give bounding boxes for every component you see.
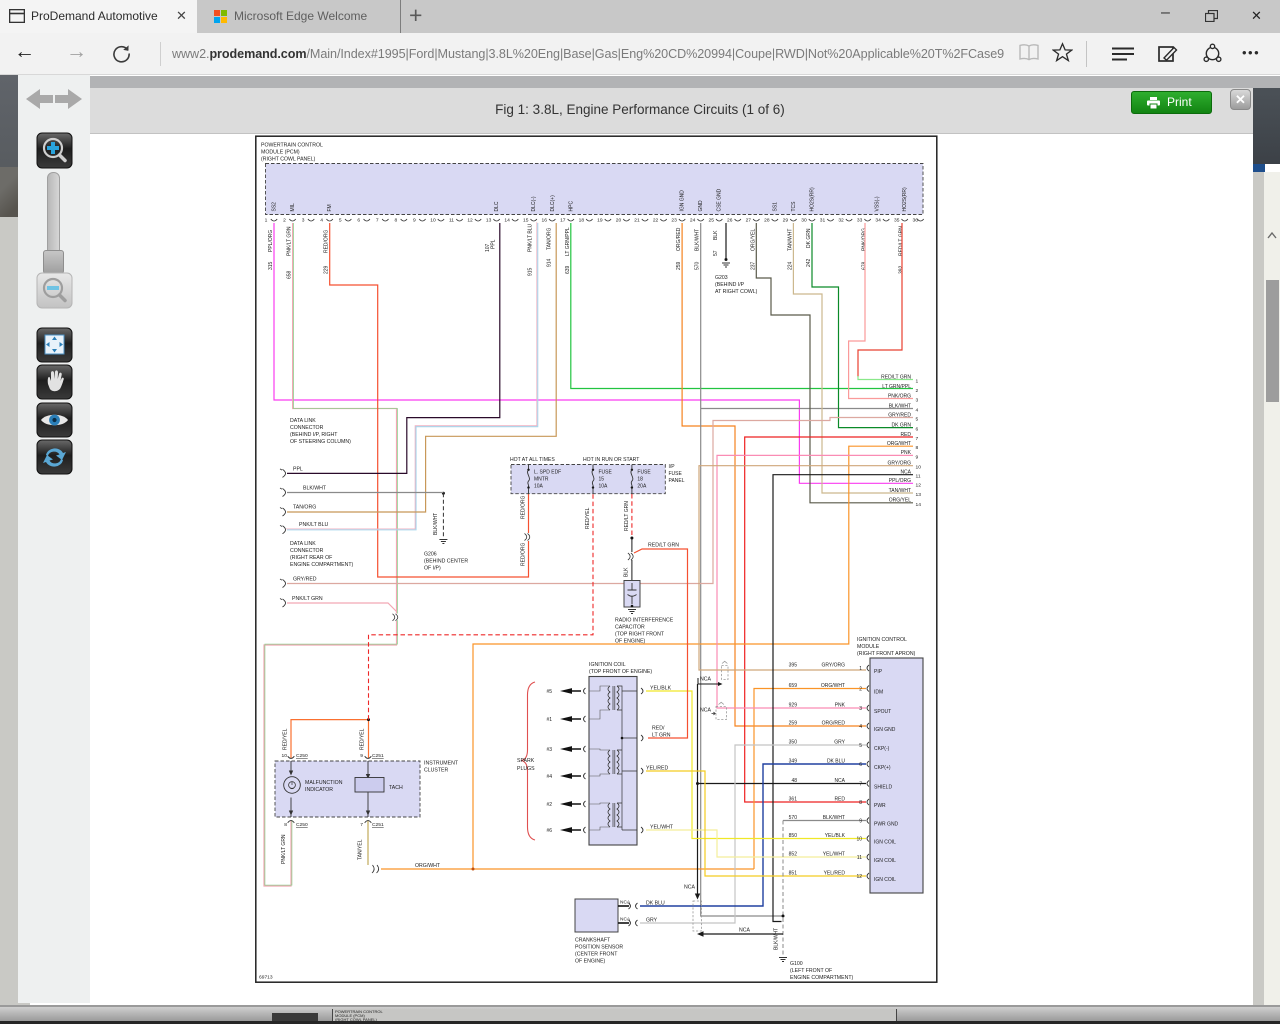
- svg-text:8: 8: [916, 445, 919, 451]
- svg-text:BLK: BLK: [624, 567, 630, 577]
- svg-text:INSTRUMENT: INSTRUMENT: [424, 761, 459, 767]
- svg-text:ORG/RED: ORG/RED: [822, 721, 846, 727]
- svg-text:349: 349: [789, 759, 798, 765]
- svg-text:YEL/WHT: YEL/WHT: [823, 852, 845, 858]
- svg-text:IGN GND: IGN GND: [874, 727, 896, 733]
- svg-text:FM: FM: [327, 204, 333, 211]
- svg-text:LT GRN/PPL: LT GRN/PPL: [565, 227, 571, 256]
- svg-text:259: 259: [676, 261, 682, 270]
- svg-text:TAN/ORG: TAN/ORG: [546, 227, 552, 250]
- svg-text:10: 10: [916, 465, 922, 471]
- svg-text:NCA: NCA: [834, 778, 845, 784]
- svg-text:VSS(-): VSS(-): [875, 196, 881, 211]
- svg-text:#1: #1: [546, 717, 552, 723]
- svg-text:YEL/RED: YEL/RED: [824, 871, 846, 877]
- svg-text:RED/LT GRN: RED/LT GRN: [624, 501, 630, 531]
- svg-text:SPOUT: SPOUT: [874, 709, 891, 715]
- svg-text:DATA LINK: DATA LINK: [290, 418, 316, 424]
- svg-text:RED/: RED/: [652, 726, 665, 732]
- svg-text:C251: C251: [372, 822, 384, 828]
- svg-text:27: 27: [746, 218, 752, 224]
- svg-text:RADIO INTERFERENCE: RADIO INTERFERENCE: [615, 618, 674, 624]
- svg-text:GRY/RED: GRY/RED: [293, 577, 317, 583]
- svg-text:#5: #5: [546, 689, 552, 695]
- svg-text:(TOP RIGHT FRONT: (TOP RIGHT FRONT: [615, 632, 665, 638]
- svg-text:DATA LINK: DATA LINK: [290, 541, 316, 547]
- svg-text:RED/YEL: RED/YEL: [283, 728, 289, 750]
- svg-text:31: 31: [820, 218, 826, 224]
- svg-text:GRY/ORG: GRY/ORG: [821, 663, 845, 669]
- svg-text:PANEL: PANEL: [669, 478, 685, 484]
- svg-text:G206: G206: [424, 552, 437, 558]
- svg-text:15: 15: [523, 218, 529, 224]
- svg-text:11: 11: [857, 855, 862, 861]
- svg-text:IGNITION CONTROL: IGNITION CONTROL: [857, 637, 907, 643]
- svg-text:14: 14: [916, 502, 922, 508]
- svg-text:CRANKSHAFT: CRANKSHAFT: [575, 938, 611, 944]
- svg-text:MIL: MIL: [290, 203, 296, 212]
- svg-text:YEL/RED: YEL/RED: [646, 766, 668, 772]
- svg-text:5: 5: [339, 218, 342, 224]
- svg-text:395: 395: [789, 663, 798, 669]
- svg-text:22: 22: [653, 218, 659, 224]
- svg-text:8: 8: [859, 800, 862, 806]
- svg-text:7: 7: [376, 218, 379, 224]
- svg-text:30: 30: [801, 218, 807, 224]
- svg-text:IGNITION COIL: IGNITION COIL: [589, 662, 626, 668]
- svg-text:POSITION SENSOR: POSITION SENSOR: [575, 945, 623, 951]
- svg-text:#6: #6: [546, 828, 552, 834]
- svg-text:229: 229: [324, 265, 330, 274]
- svg-text:SHIELD: SHIELD: [874, 784, 892, 790]
- svg-text:RED/ORG: RED/ORG: [521, 543, 527, 566]
- svg-text:BLK: BLK: [713, 230, 719, 240]
- svg-text:658: 658: [287, 270, 293, 279]
- svg-text:BLK/WHT: BLK/WHT: [823, 815, 845, 821]
- svg-text:RED/LT GRN: RED/LT GRN: [648, 543, 679, 549]
- svg-text:32: 32: [838, 218, 844, 224]
- svg-text:PNK/LT GRN: PNK/LT GRN: [287, 226, 293, 256]
- svg-text:C250: C250: [296, 822, 308, 828]
- svg-text:CONNECTOR: CONNECTOR: [290, 548, 324, 554]
- svg-text:IGN COIL: IGN COIL: [874, 877, 896, 883]
- svg-text:361: 361: [789, 797, 798, 803]
- svg-text:11: 11: [449, 218, 454, 224]
- svg-text:5: 5: [859, 743, 862, 749]
- svg-text:TAN/WHT: TAN/WHT: [889, 488, 911, 494]
- svg-text:24: 24: [690, 218, 696, 224]
- svg-text:16: 16: [542, 218, 548, 224]
- svg-text:PPL/ORG: PPL/ORG: [268, 230, 274, 252]
- svg-text:TAN/YEL: TAN/YEL: [358, 839, 364, 860]
- svg-text:SS1: SS1: [772, 202, 778, 212]
- svg-text:NCA: NCA: [700, 708, 711, 714]
- svg-text:PPL: PPL: [491, 239, 497, 249]
- svg-text:#3: #3: [546, 747, 552, 753]
- svg-text:DLC(+): DLC(+): [550, 195, 556, 212]
- svg-text:7: 7: [360, 822, 363, 828]
- svg-text:13: 13: [486, 218, 492, 224]
- svg-text:PNK/LT BLU: PNK/LT BLU: [528, 223, 534, 252]
- svg-text:21: 21: [634, 218, 640, 224]
- svg-text:(RIGHT REAR OF: (RIGHT REAR OF: [290, 555, 332, 561]
- svg-text:14: 14: [504, 218, 510, 224]
- svg-text:PLUGS: PLUGS: [517, 766, 535, 772]
- svg-text:#2: #2: [546, 802, 552, 808]
- svg-text:OF I/P): OF I/P): [424, 566, 441, 572]
- svg-text:DLC(-): DLC(-): [531, 196, 537, 211]
- svg-text:69713: 69713: [259, 975, 273, 981]
- svg-text:6: 6: [916, 427, 919, 433]
- svg-text:34: 34: [875, 218, 881, 224]
- svg-text:PNK/LT BLU: PNK/LT BLU: [299, 522, 328, 528]
- svg-text:(BEHIND I/P: (BEHIND I/P: [715, 282, 745, 288]
- svg-text:3: 3: [859, 706, 862, 712]
- svg-text:INDICATOR: INDICATOR: [305, 787, 333, 793]
- svg-text:PNK/ORG: PNK/ORG: [888, 393, 911, 399]
- svg-text:TAN/ORG: TAN/ORG: [293, 505, 316, 511]
- svg-text:PPL/ORG: PPL/ORG: [889, 478, 911, 484]
- svg-text:BLK/WHT: BLK/WHT: [303, 485, 327, 491]
- svg-text:C250: C250: [296, 753, 308, 759]
- svg-text:MNTR: MNTR: [534, 477, 549, 483]
- svg-text:MALFUNCTION: MALFUNCTION: [305, 780, 343, 786]
- svg-text:PIP: PIP: [874, 669, 883, 675]
- svg-text:RED/YEL: RED/YEL: [360, 728, 366, 750]
- svg-text:CONNECTOR: CONNECTOR: [290, 425, 324, 431]
- svg-text:2: 2: [916, 388, 919, 394]
- svg-text:107: 107: [485, 243, 491, 252]
- svg-text:SPARK: SPARK: [517, 758, 535, 764]
- svg-text:26: 26: [727, 218, 733, 224]
- svg-text:PPL: PPL: [293, 467, 303, 473]
- svg-text:6: 6: [859, 762, 862, 768]
- svg-text:PNK/LT GRN: PNK/LT GRN: [292, 596, 323, 602]
- svg-text:10A: 10A: [599, 484, 609, 490]
- svg-text:RED: RED: [900, 432, 911, 438]
- svg-text:ORG/WHT: ORG/WHT: [415, 863, 441, 869]
- svg-text:ORG/WHT: ORG/WHT: [821, 683, 845, 689]
- svg-text:ENGINE COMPARTMENT): ENGINE COMPARTMENT): [290, 562, 353, 568]
- svg-text:15: 15: [599, 477, 605, 483]
- svg-text:CLUSTER: CLUSTER: [424, 768, 448, 774]
- svg-text:RED/ORG: RED/ORG: [521, 496, 527, 519]
- svg-text:224: 224: [787, 261, 793, 270]
- svg-text:12: 12: [856, 874, 862, 880]
- svg-text:NCA: NCA: [620, 900, 631, 906]
- svg-text:POWERTRAIN CONTROL: POWERTRAIN CONTROL: [261, 143, 323, 149]
- svg-text:RED/ORG: RED/ORG: [324, 230, 330, 253]
- svg-text:RED/YEL: RED/YEL: [585, 507, 591, 529]
- svg-text:570: 570: [695, 261, 701, 270]
- svg-text:12: 12: [916, 482, 922, 488]
- svg-text:OF ENGINE): OF ENGINE): [575, 959, 606, 965]
- svg-text:HO2S(RR): HO2S(RR): [809, 187, 815, 212]
- svg-text:36: 36: [913, 218, 919, 224]
- svg-text:28: 28: [764, 218, 770, 224]
- svg-text:GND: GND: [698, 200, 704, 212]
- svg-text:35: 35: [894, 218, 900, 224]
- svg-text:HO2S(RR): HO2S(RR): [902, 187, 908, 212]
- svg-text:L. SPD EDF: L. SPD EDF: [534, 470, 561, 476]
- svg-text:RED: RED: [834, 797, 845, 803]
- svg-text:BLK/WHT: BLK/WHT: [889, 403, 911, 409]
- svg-text:CKP(-): CKP(-): [874, 746, 890, 752]
- svg-text:NCA: NCA: [684, 885, 695, 891]
- svg-text:639: 639: [565, 265, 571, 274]
- svg-text:9: 9: [413, 218, 416, 224]
- svg-text:350: 350: [789, 740, 798, 746]
- svg-text:914: 914: [546, 258, 552, 267]
- svg-text:BLK/WHT: BLK/WHT: [774, 928, 780, 950]
- svg-text:(CENTER FRONT: (CENTER FRONT: [575, 952, 618, 958]
- svg-text:GRY/RED: GRY/RED: [888, 412, 911, 418]
- svg-text:PWR: PWR: [874, 803, 886, 809]
- svg-text:FUSE: FUSE: [669, 471, 683, 477]
- svg-text:IGN COIL: IGN COIL: [874, 858, 896, 864]
- svg-text:LT GRN/PPL: LT GRN/PPL: [882, 384, 911, 390]
- svg-text:7: 7: [859, 782, 862, 788]
- svg-text:(RIGHT COWL PANEL): (RIGHT COWL PANEL): [261, 157, 316, 163]
- svg-text:IGN COIL: IGN COIL: [874, 839, 896, 845]
- svg-text:(BEHIND I/P, RIGHT: (BEHIND I/P, RIGHT: [290, 432, 338, 438]
- svg-text:C251: C251: [372, 753, 384, 759]
- svg-text:9: 9: [859, 819, 862, 825]
- svg-text:570: 570: [789, 815, 798, 821]
- svg-text:DK GRN: DK GRN: [892, 422, 912, 428]
- svg-text:6: 6: [357, 218, 360, 224]
- svg-text:PNK: PNK: [901, 450, 912, 456]
- svg-text:8: 8: [394, 218, 397, 224]
- svg-text:CSE GND: CSE GND: [717, 188, 723, 211]
- svg-text:18: 18: [637, 477, 643, 483]
- svg-text:19: 19: [597, 218, 603, 224]
- svg-text:ORG/RED: ORG/RED: [676, 227, 682, 251]
- svg-text:1: 1: [916, 379, 919, 385]
- svg-text:10: 10: [430, 218, 436, 224]
- svg-text:YEL/WHT: YEL/WHT: [650, 825, 674, 831]
- svg-text:LT GRN: LT GRN: [652, 733, 671, 739]
- svg-text:MODULE (PCM): MODULE (PCM): [261, 150, 300, 156]
- svg-text:5: 5: [916, 417, 919, 423]
- svg-text:DK BLU: DK BLU: [827, 759, 845, 765]
- svg-text:OF STEERING COLUMN): OF STEERING COLUMN): [290, 439, 351, 445]
- svg-text:11: 11: [916, 474, 921, 480]
- svg-text:ORG/YEL: ORG/YEL: [889, 498, 911, 504]
- svg-text:48: 48: [791, 778, 797, 784]
- svg-text:18: 18: [579, 218, 585, 224]
- svg-text:IGN GND: IGN GND: [680, 190, 686, 212]
- svg-text:ORG/YEL: ORG/YEL: [750, 229, 756, 251]
- svg-text:TAN/WHT: TAN/WHT: [787, 229, 793, 251]
- svg-text:PNK/LT GRN: PNK/LT GRN: [281, 834, 287, 864]
- svg-text:4: 4: [916, 408, 919, 414]
- svg-text:242: 242: [806, 258, 812, 267]
- svg-text:YEL/BLK: YEL/BLK: [650, 686, 672, 692]
- svg-text:MODULE: MODULE: [857, 644, 880, 650]
- svg-text:DK GRN: DK GRN: [806, 228, 812, 248]
- svg-text:13: 13: [916, 492, 922, 498]
- svg-text:BLK/WHT: BLK/WHT: [433, 513, 439, 535]
- svg-text:3: 3: [916, 398, 919, 404]
- svg-text:TACH: TACH: [389, 785, 403, 791]
- svg-text:237: 237: [750, 261, 756, 270]
- svg-text:(RIGHT FRONT APRON): (RIGHT FRONT APRON): [857, 651, 916, 657]
- svg-text:PWR GND: PWR GND: [874, 821, 899, 827]
- svg-text:RED/LT GRN: RED/LT GRN: [881, 374, 911, 380]
- svg-text:DK BLU: DK BLU: [646, 901, 665, 907]
- svg-text:BLK/WHT: BLK/WHT: [695, 229, 701, 251]
- svg-text:9: 9: [360, 753, 363, 759]
- svg-text:DLC: DLC: [494, 201, 500, 211]
- svg-text:2: 2: [283, 218, 286, 224]
- svg-text:850: 850: [789, 833, 798, 839]
- svg-text:12: 12: [467, 218, 473, 224]
- svg-text:CKP(+): CKP(+): [874, 765, 891, 771]
- svg-text:57: 57: [713, 250, 719, 256]
- svg-text:315: 315: [268, 261, 274, 270]
- svg-text:NCA: NCA: [620, 917, 631, 923]
- svg-text:CAPACITOR: CAPACITOR: [615, 625, 645, 631]
- svg-text:4: 4: [320, 218, 323, 224]
- svg-text:23: 23: [671, 218, 677, 224]
- svg-text:AT RIGHT COWL): AT RIGHT COWL): [715, 289, 758, 295]
- svg-text:20A: 20A: [637, 484, 647, 490]
- svg-text:259: 259: [789, 721, 798, 727]
- svg-text:659: 659: [789, 683, 798, 689]
- svg-text:NCA: NCA: [900, 470, 911, 476]
- svg-text:YEL/BLK: YEL/BLK: [825, 833, 846, 839]
- svg-text:10: 10: [856, 837, 862, 843]
- svg-text:HPC: HPC: [568, 201, 574, 212]
- svg-text:HOT AT ALL TIMES: HOT AT ALL TIMES: [510, 457, 555, 463]
- svg-text:4: 4: [859, 724, 862, 730]
- svg-text:25: 25: [708, 218, 714, 224]
- svg-text:NCA: NCA: [739, 928, 750, 934]
- svg-text:29: 29: [783, 218, 789, 224]
- svg-text:10A: 10A: [534, 484, 544, 490]
- svg-text:TCS: TCS: [791, 201, 797, 212]
- svg-text:ENGINE COMPARTMENT): ENGINE COMPARTMENT): [790, 975, 853, 981]
- svg-text:929: 929: [789, 703, 798, 709]
- svg-text:9: 9: [916, 454, 919, 460]
- svg-text:852: 852: [789, 852, 798, 858]
- svg-text:17: 17: [560, 218, 566, 224]
- svg-text:33: 33: [857, 218, 863, 224]
- svg-text:3: 3: [302, 218, 305, 224]
- svg-text:1: 1: [859, 666, 862, 672]
- svg-text:20: 20: [616, 218, 622, 224]
- svg-text:(TOP FRONT OF ENGINE): (TOP FRONT OF ENGINE): [589, 669, 652, 675]
- svg-text:915: 915: [528, 267, 534, 276]
- svg-text:GRY: GRY: [646, 918, 658, 924]
- svg-text:IDM: IDM: [874, 689, 883, 695]
- svg-text:SS2: SS2: [272, 202, 278, 212]
- svg-text:2: 2: [859, 687, 862, 693]
- svg-text:(LEFT FRONT OF: (LEFT FRONT OF: [790, 968, 832, 974]
- svg-text:ORG/WHT: ORG/WHT: [887, 441, 911, 447]
- svg-text:7: 7: [916, 436, 919, 442]
- svg-text:#4: #4: [546, 774, 552, 780]
- svg-text:1: 1: [265, 218, 268, 224]
- svg-text:G100: G100: [790, 961, 803, 967]
- svg-text:FUSE: FUSE: [599, 470, 613, 476]
- svg-text:851: 851: [789, 871, 798, 877]
- svg-text:NCA: NCA: [700, 677, 711, 683]
- svg-text:FUSE: FUSE: [637, 470, 651, 476]
- svg-text:PNK: PNK: [835, 703, 846, 709]
- svg-text:G203: G203: [715, 275, 728, 281]
- svg-text:GRY/ORG: GRY/ORG: [887, 461, 911, 467]
- svg-text:(BEHIND CENTER: (BEHIND CENTER: [424, 559, 468, 565]
- svg-text:8: 8: [284, 822, 287, 828]
- svg-text:HOT IN RUN OR START: HOT IN RUN OR START: [583, 457, 639, 463]
- svg-text:I/P: I/P: [669, 464, 676, 470]
- svg-text:10: 10: [282, 753, 288, 759]
- svg-text:OF ENGINE): OF ENGINE): [615, 639, 646, 645]
- svg-text:GRY: GRY: [834, 740, 845, 746]
